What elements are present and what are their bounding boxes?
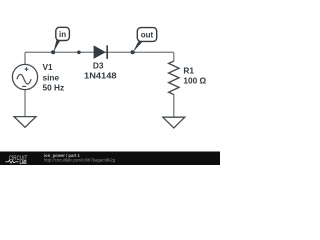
diode D3 (94, 45, 108, 59)
svg-text:1N4148: 1N4148 (84, 70, 117, 80)
svg-text:50 Hz: 50 Hz (43, 83, 65, 93)
CircuitLab footer bar (0, 152, 220, 167)
wire right vertical top (corner to R1) (173, 52, 175, 61)
node in junction dot (51, 50, 55, 54)
label R1 value (183, 66, 206, 86)
ground (right) (163, 117, 185, 128)
svg-text:LAB: LAB (20, 160, 27, 165)
label V1 value (43, 62, 65, 93)
ground (left) (14, 117, 36, 128)
svg-text:D3: D3 (93, 61, 104, 71)
label D3 value (84, 61, 117, 81)
node flag in (53, 27, 69, 52)
svg-text:R1: R1 (183, 66, 194, 76)
svg-text:http://circuitlab.com/c/9b76ag: http://circuitlab.com/c/9b76agam8k2g (44, 157, 116, 162)
wire V1 bottom stem to ground (24, 90, 26, 117)
wire V1 top stem (24, 52, 26, 64)
junction dot mid wire (77, 51, 81, 55)
wire main horizontal (node in to corner) (25, 51, 174, 53)
wire right vertical bottom (R1 to ground) (173, 95, 175, 118)
node flag out (133, 28, 157, 53)
svg-text:in: in (59, 30, 66, 39)
svg-text:100 Ω: 100 Ω (183, 76, 206, 86)
svg-text:out: out (141, 31, 154, 40)
svg-text:sine: sine (43, 73, 60, 83)
voltage source V1 (12, 64, 37, 89)
node out junction dot (131, 50, 135, 54)
resistor R1 (169, 61, 179, 95)
svg-text:V1: V1 (43, 62, 54, 72)
